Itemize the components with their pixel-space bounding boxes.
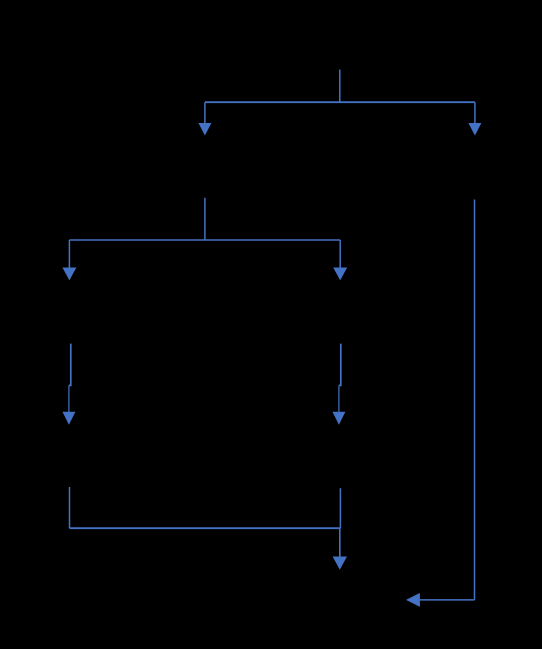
wire: right drop shaft <box>474 102 476 123</box>
wire: mid branch horizontal <box>69 239 340 241</box>
wire: right kinked connector lower shaft <box>338 385 340 412</box>
wire: bottom elbow horizontal <box>70 527 341 529</box>
wire: left kinked connector upper segment <box>69 344 71 386</box>
node: arrowhead lower-left <box>62 412 75 425</box>
wire: left box2 connector vertical <box>204 198 206 240</box>
node: arrowhead bottom-mid <box>333 557 347 570</box>
wire: top branch horizontal <box>205 101 475 103</box>
wire: bottom-mid vertical from box <box>339 488 341 528</box>
node: arrowhead lower-right <box>332 412 345 425</box>
wire: bottom-mid arrow shaft <box>339 528 341 557</box>
node: arrowhead into right top box <box>468 123 481 136</box>
wire: bottom-left elbow vertical <box>69 487 71 528</box>
node: arrowhead mid-right <box>333 268 347 281</box>
wire: title-to-branch vertical connector <box>339 70 341 103</box>
node: arrowhead feedback (points left) <box>406 593 420 607</box>
wire: mid-right arrow shaft <box>339 240 341 268</box>
wire: feedback bottom horizontal <box>420 599 475 601</box>
node: arrowhead into left top box <box>198 123 211 136</box>
wire: right long feedback vertical <box>474 200 476 600</box>
node: arrowhead mid-left <box>62 268 76 281</box>
wire: left kinked connector lower shaft <box>68 385 70 412</box>
wire: left drop shaft <box>204 102 206 123</box>
wire: mid-left arrow shaft <box>68 240 70 268</box>
wire: right kinked connector upper segment <box>339 344 341 386</box>
